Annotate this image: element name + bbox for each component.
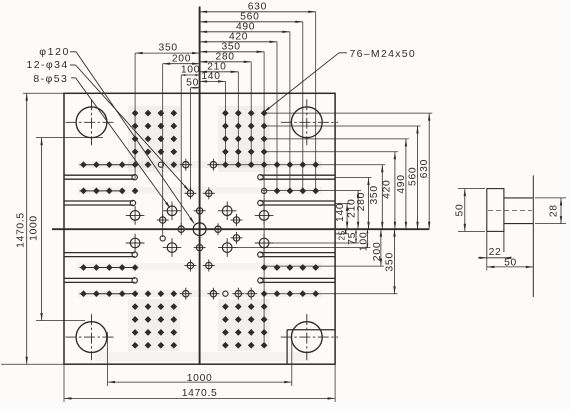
dimension 490 right bbox=[265, 139, 409, 229]
T-slot lower-left row -140 bbox=[64, 252, 137, 257]
svg-text:50: 50 bbox=[454, 204, 465, 217]
12-phi34 holes bbox=[157, 159, 258, 300]
dimension 280 top bbox=[200, 51, 252, 63]
dimension 350 right-lower bbox=[263, 229, 397, 294]
dimension 560 top bbox=[200, 11, 303, 23]
small pilot holes bbox=[158, 162, 266, 296]
svg-text:1000: 1000 bbox=[187, 373, 213, 384]
dimension 100 top-left bbox=[181, 65, 200, 76]
tie-bar hole bottom-right bbox=[281, 314, 338, 360]
bottom-right corner pad box bbox=[287, 330, 335, 364]
dimension 630 right bbox=[265, 113, 432, 229]
svg-text:50: 50 bbox=[504, 257, 517, 268]
svg-text:100: 100 bbox=[181, 65, 200, 76]
detail T-slot section outline bbox=[487, 189, 504, 259]
svg-text:28: 28 bbox=[549, 204, 560, 217]
platen plate outline bbox=[64, 93, 335, 364]
svg-text:200: 200 bbox=[172, 53, 191, 64]
svg-text:1470.5: 1470.5 bbox=[182, 388, 218, 399]
dimension 1000 bottom bbox=[108, 332, 292, 386]
svg-text:76–M24x50: 76–M24x50 bbox=[350, 48, 417, 60]
svg-text:1470.5: 1470.5 bbox=[16, 212, 27, 248]
svg-text:8-φ53: 8-φ53 bbox=[33, 73, 68, 85]
dimension 350 top-left bbox=[135, 43, 200, 55]
detail centerline bbox=[488, 209, 532, 211]
detail slot lip lines bbox=[504, 198, 533, 224]
dimension 420 top bbox=[200, 31, 277, 43]
T-slot lower-left row -280 bbox=[64, 278, 137, 283]
dimension 210 top bbox=[200, 61, 239, 73]
dimension 630 top bbox=[200, 1, 316, 13]
svg-text:350: 350 bbox=[383, 252, 395, 272]
extension lines top-left dims bbox=[135, 53, 190, 237]
dimension 50 detail-left bbox=[454, 189, 485, 232]
T-slot lower-right row -140 bbox=[258, 252, 335, 257]
dimension 100 right-lower bbox=[227, 229, 371, 251]
svg-text:12-φ34: 12-φ34 bbox=[27, 59, 69, 71]
svg-text:140: 140 bbox=[201, 71, 220, 82]
dimension 50 detail-bottom bbox=[487, 257, 534, 270]
dimension 1470.5 bottom bbox=[64, 364, 335, 402]
dimension 28 detail-right bbox=[535, 198, 566, 224]
tie-bar hole bottom-left bbox=[66, 314, 116, 360]
center locating hole phi120 bbox=[193, 223, 206, 236]
dimension 50 top-left bbox=[186, 77, 199, 88]
dimension 420 right bbox=[265, 152, 398, 229]
horizontal centerline bbox=[52, 228, 429, 230]
dimension 25 right-lower bbox=[335, 229, 349, 240]
dimension 350 right bbox=[214, 165, 385, 230]
dimension 140 right bbox=[335, 203, 350, 230]
dimension 140 top bbox=[200, 71, 226, 83]
hole row line +350 left bbox=[80, 164, 136, 166]
hole row line -350 left bbox=[80, 293, 136, 295]
label 76-M24x50 bbox=[263, 48, 416, 113]
T-slot upper-left row +280 bbox=[64, 175, 137, 180]
dimension 200 right-lower bbox=[263, 229, 384, 266]
svg-text:140: 140 bbox=[335, 203, 346, 222]
dimension 350 top bbox=[200, 41, 265, 53]
svg-text:420: 420 bbox=[381, 180, 392, 199]
svg-text:280: 280 bbox=[356, 192, 367, 211]
dimension 1000 left bbox=[29, 138, 104, 321]
hole row line +210 left bbox=[80, 190, 123, 192]
svg-text:490: 490 bbox=[396, 174, 407, 193]
dimension 280 right bbox=[335, 178, 371, 230]
hole row line -200 left bbox=[80, 267, 136, 269]
T-slot upper-left row +140 bbox=[64, 200, 136, 205]
svg-text:560: 560 bbox=[407, 167, 418, 186]
T-slot upper-right row +280 bbox=[258, 175, 335, 180]
T-slot upper-right row +140 bbox=[258, 200, 335, 205]
svg-text:100: 100 bbox=[357, 232, 369, 252]
dimension 210 right bbox=[262, 191, 361, 230]
tie-bar hole top-right bbox=[281, 99, 338, 145]
svg-text:1000: 1000 bbox=[29, 215, 40, 241]
label phi120 bbox=[39, 46, 194, 224]
tie-bar hole top-left bbox=[66, 99, 116, 145]
vertical centerline bbox=[199, 7, 201, 365]
svg-text:200: 200 bbox=[371, 242, 383, 262]
dimension 1470.5 left bbox=[1, 93, 64, 364]
label 8-phi53 bbox=[33, 73, 170, 209]
svg-text:350: 350 bbox=[159, 43, 178, 54]
extension lines top dims bbox=[225, 12, 315, 345]
dimension 560 right bbox=[265, 126, 421, 229]
svg-text:350: 350 bbox=[369, 185, 380, 204]
svg-text:φ120: φ120 bbox=[39, 46, 70, 58]
label 12-phi34 bbox=[27, 59, 190, 191]
M24 tapped hole diamond pattern (76-M24x50) bbox=[80, 110, 319, 349]
svg-text:22: 22 bbox=[489, 247, 502, 258]
dimension 22 detail bbox=[478, 247, 511, 259]
8-phi53 holes bbox=[126, 202, 274, 257]
dimension 200 top-left bbox=[163, 53, 200, 65]
svg-text:630: 630 bbox=[419, 159, 430, 178]
svg-text:50: 50 bbox=[186, 77, 199, 88]
T-slot lower-right row -280 bbox=[258, 278, 335, 283]
detail plate face line bbox=[532, 175, 534, 297]
dimension 490 top bbox=[200, 21, 290, 33]
dimension 75 right-lower bbox=[264, 229, 359, 245]
tonal shading bbox=[78, 106, 322, 361]
